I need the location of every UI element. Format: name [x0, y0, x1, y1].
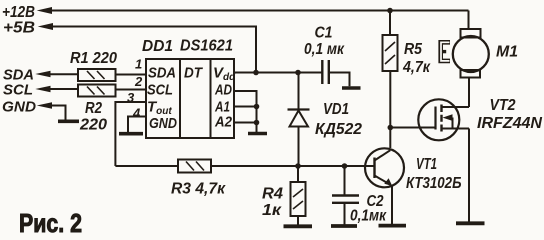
svg-text:SDA: SDA [148, 65, 176, 82]
svg-text:4: 4 [132, 106, 141, 121]
svg-text:+5В: +5В [3, 20, 35, 37]
junction dot A2 [254, 120, 260, 126]
junction dot VD1 top [295, 70, 301, 76]
svg-text:R1 220: R1 220 [70, 50, 117, 67]
svg-text:+12В: +12В [2, 4, 35, 21]
svg-text:A2: A2 [214, 114, 232, 131]
capacitor C2 [332, 196, 359, 203]
resistor R1 [78, 69, 116, 81]
motor M1 [453, 36, 489, 72]
svg-text:GND: GND [2, 99, 36, 116]
ground bar AD/A1/A2 [248, 132, 267, 136]
VT2 substrate arrow [452, 118, 454, 129]
wire VT2 source to ground [468, 129, 470, 222]
svg-text:R5: R5 [404, 41, 423, 58]
VT2 source lead [442, 128, 470, 130]
wire SCL to R2 [50, 88, 79, 90]
junction dot +5V/Vdd [253, 70, 259, 76]
ground bar R4 [284, 224, 313, 228]
VT1 base bar [373, 158, 375, 179]
svg-text:SCL: SCL [147, 82, 173, 99]
svg-text:220: 220 [79, 117, 107, 134]
svg-text:AD: AD [214, 82, 232, 99]
node SCL arrow [35, 86, 50, 92]
wire C1 right to ground [329, 73, 350, 87]
svg-text:DD1: DD1 [142, 38, 173, 55]
node GND arrow [37, 102, 52, 108]
svg-text:M1: M1 [496, 44, 518, 61]
transistor VT1 [365, 148, 404, 187]
svg-text:R3 4,7к: R3 4,7к [171, 181, 226, 198]
VT2 drain lead [442, 106, 470, 108]
svg-text:IRFZ44N: IRFZ44N [477, 115, 542, 132]
svg-text:VT2: VT2 [490, 97, 516, 114]
node +5V arrow [38, 23, 53, 30]
wire Vdd line to C1 [234, 72, 322, 74]
junction dot C2 top [342, 163, 348, 169]
wire +12V to motor top [468, 11, 470, 30]
svg-text:R4: R4 [262, 186, 283, 203]
wire A1 stub [234, 106, 257, 108]
svg-text:2: 2 [134, 74, 143, 89]
ground bar C1 [342, 86, 361, 90]
node SDA arrow [35, 71, 50, 77]
wire GND input [51, 106, 66, 120]
ground bar pin4 [119, 132, 143, 136]
svg-text:1к: 1к [262, 202, 282, 219]
resistor R2 [78, 85, 116, 97]
wire motor bottom to VT2 drain [468, 78, 470, 108]
wire A2 stub [234, 122, 257, 124]
junction dot VD1 bottom [295, 163, 301, 169]
ground bar C2 [331, 224, 357, 228]
diode VD1 [298, 74, 300, 110]
VT2 channel segments [440, 105, 442, 132]
wire base line left of R3 [115, 165, 178, 167]
ground bar VT2 source [456, 221, 485, 225]
wire gate node to VT2 gate [390, 127, 435, 129]
VT1 emitter arrow [384, 178, 392, 186]
svg-text:КТ3102Б: КТ3102Б [406, 175, 462, 192]
svg-text:R2: R2 [85, 100, 102, 117]
wire pin3 Tout down to base line [115, 102, 146, 166]
junction dot gate node [388, 125, 394, 131]
wire C2 top [344, 166, 346, 196]
VT2 gate bar [434, 107, 436, 130]
capacitor C1 [322, 60, 329, 84]
op IC DD1 box [146, 59, 234, 138]
wire SDA to R1 [50, 73, 79, 75]
wire R5 top [389, 11, 391, 36]
svg-text:0,1мк: 0,1мк [350, 208, 387, 225]
wire R4 top [297, 166, 299, 182]
svg-text:C1: C1 [315, 25, 333, 42]
transistor VT2 MOSFET [418, 99, 459, 140]
svg-text:GND: GND [149, 115, 177, 132]
ground bar VT1 emitter [379, 224, 407, 228]
wire R4 bottom [297, 216, 299, 225]
svg-text:VT1: VT1 [416, 156, 437, 173]
svg-text:DT: DT [184, 65, 204, 82]
node +12V arrow [37, 7, 52, 14]
svg-text:DS1621: DS1621 [180, 38, 233, 55]
motor brush bracket [441, 42, 450, 61]
junction dot +12V R5 [387, 8, 393, 14]
svg-text:4,7к: 4,7к [402, 59, 431, 76]
svg-text:1: 1 [135, 57, 142, 72]
resistor R3 [178, 160, 211, 173]
wire base line right of R3 [211, 165, 375, 167]
wire AD to ground rail [234, 91, 257, 132]
wire +12V rail [51, 10, 469, 12]
wire C2 bottom [344, 203, 346, 225]
wire pin4 GND to ground [128, 117, 146, 133]
wire R2 to pin2 [116, 89, 147, 91]
svg-text:Рис. 2: Рис. 2 [19, 208, 82, 238]
svg-text:0,1 мк: 0,1 мк [304, 41, 345, 58]
junction dot A1 [254, 104, 260, 110]
ground bar GND input [58, 120, 79, 124]
wire VT1 emitter to ground [391, 186, 393, 225]
svg-text:КД522: КД522 [315, 121, 362, 138]
VT1 collector lead [375, 150, 391, 160]
resistor R4 [291, 182, 306, 216]
VT1 emitter lead [375, 176, 391, 185]
resistor R5 [383, 35, 398, 71]
svg-text:SCL: SCL [3, 82, 33, 99]
wire R5 bottom to gate node [389, 71, 391, 148]
wire R1 to pin1 [116, 74, 147, 76]
wire +5V rail to Vdd [52, 27, 256, 73]
svg-text:VD1: VD1 [323, 101, 349, 118]
